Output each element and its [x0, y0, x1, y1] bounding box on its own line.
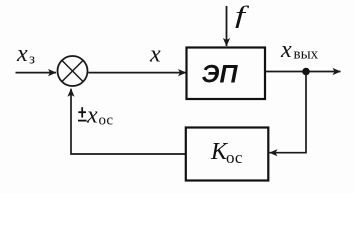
svg-text:x: x	[16, 41, 28, 67]
svg-text:f: f	[235, 2, 250, 29]
svg-text:з: з	[29, 52, 35, 68]
svg-text:x: x	[280, 37, 292, 63]
svg-text:вых: вых	[294, 47, 319, 63]
svg-text:x: x	[149, 42, 161, 68]
svg-text:x: x	[86, 103, 98, 129]
svg-text:ЭП: ЭП	[202, 60, 239, 88]
svg-text:ос: ос	[99, 113, 114, 129]
svg-text:ос: ос	[226, 148, 243, 167]
